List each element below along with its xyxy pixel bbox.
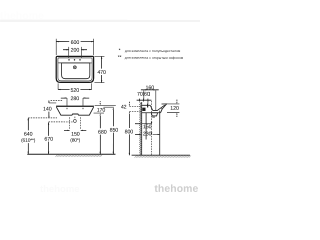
side basin bottom xyxy=(142,109,163,113)
front view body xyxy=(56,107,93,115)
dim 170 xyxy=(94,101,116,114)
svg-text:**: ** xyxy=(118,55,122,61)
dim 600 xyxy=(56,39,93,55)
pedestal rear line xyxy=(145,113,147,139)
svg-text:thehome: thehome xyxy=(0,10,44,22)
side view dim 160 xyxy=(141,85,159,110)
dim 640 (610) xyxy=(21,118,36,154)
side view dim 70/60 texts xyxy=(137,92,150,98)
floor hatch side view xyxy=(134,155,191,157)
wall hatch xyxy=(139,102,141,155)
side basin tap hole xyxy=(147,104,148,108)
drain axis dashed right xyxy=(80,117,82,129)
svg-text:60: 60 xyxy=(144,92,150,98)
plan view outer rim xyxy=(56,56,93,82)
svg-text:150: 150 xyxy=(143,124,152,130)
svg-text:600: 600 xyxy=(71,40,80,46)
svg-text:200: 200 xyxy=(71,48,80,54)
dim 680 xyxy=(98,113,107,154)
floor line side view xyxy=(132,154,190,156)
floor hatch front view xyxy=(55,154,102,156)
svg-text:470: 470 xyxy=(97,70,106,76)
svg-text:150: 150 xyxy=(71,132,80,138)
svg-text:280: 280 xyxy=(71,96,80,102)
svg-text:160: 160 xyxy=(146,85,155,91)
svg-text:70: 70 xyxy=(137,92,143,98)
dim 520 xyxy=(58,83,92,94)
dim 850 xyxy=(103,107,118,154)
side basin rim xyxy=(161,104,167,109)
dim 120 xyxy=(167,100,179,117)
drain outlet circle xyxy=(73,120,76,123)
dim 800 xyxy=(125,114,134,155)
side view dim 70/60 line xyxy=(137,99,152,104)
svg-text:170: 170 xyxy=(97,108,106,114)
dim 150 side xyxy=(135,117,155,130)
dim 470 xyxy=(94,56,106,82)
dim 230 side xyxy=(135,131,160,137)
svg-text:800: 800 xyxy=(125,129,134,135)
dim 140 xyxy=(28,100,63,118)
wall face line xyxy=(141,102,143,155)
svg-text:для комплекта с полупьедестало: для комплекта с полупьедесталом xyxy=(125,49,181,53)
svg-text:230: 230 xyxy=(143,131,152,137)
svg-text:680: 680 xyxy=(98,130,107,136)
svg-text:thehome: thehome xyxy=(40,184,80,195)
svg-text:140: 140 xyxy=(43,106,52,112)
plan view ledge line xyxy=(58,62,92,64)
dim 42 xyxy=(121,102,142,114)
svg-text:(610**): (610**) xyxy=(21,138,36,144)
dim 200 xyxy=(63,47,87,58)
dim 670 xyxy=(44,122,72,154)
mounting hole line right xyxy=(82,98,83,110)
svg-text:120: 120 xyxy=(170,106,179,112)
front view top edge xyxy=(56,105,94,107)
drain axis dashed xyxy=(150,101,152,155)
svg-text:(80*): (80*) xyxy=(70,138,80,144)
dim 150 (80*) xyxy=(64,130,86,144)
side basin drain boss xyxy=(151,113,157,116)
svg-text:42: 42 xyxy=(121,105,127,111)
floor line front view xyxy=(27,153,115,155)
plan view bowl xyxy=(62,63,90,79)
wall bracket xyxy=(142,108,145,111)
dim 280 xyxy=(61,96,89,102)
side basin bowl profile xyxy=(150,105,165,110)
tap hole right xyxy=(79,59,80,60)
svg-text:для комплекта с открытым сифон: для комплекта с открытым сифоном xyxy=(125,56,184,60)
svg-text:*: * xyxy=(119,48,121,54)
plan view inner rim xyxy=(58,58,92,81)
svg-text:thehome: thehome xyxy=(154,184,198,195)
svg-text:640: 640 xyxy=(24,132,33,138)
drain symbol xyxy=(73,66,76,69)
tap hole center xyxy=(74,59,75,60)
svg-text:520: 520 xyxy=(71,88,80,94)
drain axis dashed left xyxy=(69,117,71,129)
tap hole left xyxy=(68,59,69,60)
faint gray band across top xyxy=(0,20,200,22)
pedestal front line xyxy=(159,111,161,156)
mounting hole line left xyxy=(66,98,67,110)
svg-text:850: 850 xyxy=(110,128,119,134)
side basin deck xyxy=(142,104,151,106)
drain axis stub xyxy=(74,117,76,120)
